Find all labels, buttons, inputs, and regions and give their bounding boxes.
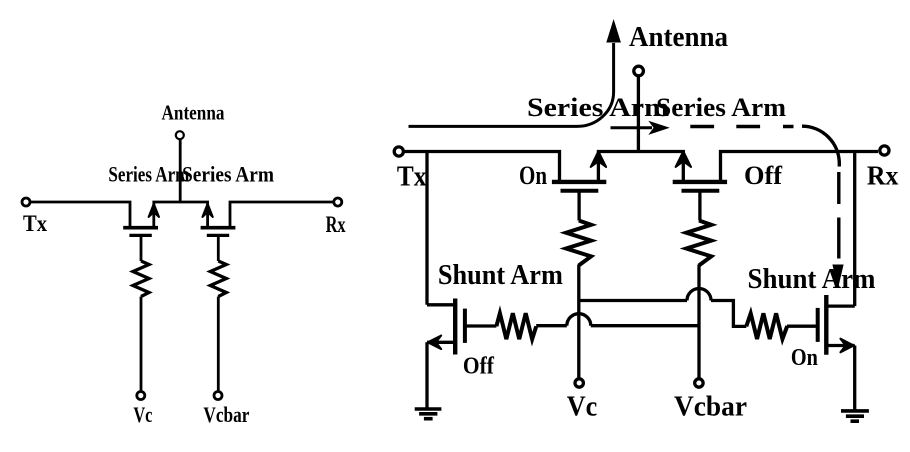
transistor M6 gate bar bbox=[816, 308, 820, 342]
wire crossover to Vcbar node bbox=[591, 324, 699, 327]
transistor M5 bottom lead bbox=[427, 341, 455, 344]
svg-text:Tx: Tx bbox=[397, 162, 427, 193]
svg-text:Series Arm: Series Arm bbox=[656, 93, 786, 122]
svg-text:Antenna: Antenna bbox=[629, 22, 728, 53]
wire M4 drain to Rx bbox=[721, 152, 879, 182]
svg-text:Vcbar: Vcbar bbox=[674, 392, 747, 423]
wire antenna to rail (left) bbox=[179, 140, 182, 202]
wire R4 to Vcbar terminal bbox=[697, 265, 700, 379]
ground (left) bar 2 bbox=[419, 412, 437, 416]
svg-text:Series Arm: Series Arm bbox=[182, 161, 274, 186]
ground (left) bar 3 bbox=[424, 417, 433, 421]
transistor M3 channel bar bbox=[552, 180, 606, 184]
wire R6 to M6 gate bbox=[787, 325, 816, 328]
ground (right) bar 3 bbox=[851, 419, 860, 423]
svg-text:On: On bbox=[791, 345, 818, 371]
transistor M1 arrow (drain lead) bbox=[149, 204, 159, 217]
wire M3 drain to antenna node to M4 source bbox=[598, 152, 683, 182]
transistor M5 (left shunt) top lead bbox=[427, 303, 455, 306]
antenna terminal (right) bbox=[634, 66, 644, 76]
wire M3 gate to resistor R3 bbox=[577, 192, 580, 220]
svg-text:Antenna: Antenna bbox=[162, 101, 225, 125]
transistor M5 gate bar bbox=[463, 309, 467, 343]
transistor M4 channel bar bbox=[673, 180, 727, 184]
transistor M3 gate bar bbox=[561, 189, 599, 193]
svg-text:Rx: Rx bbox=[326, 212, 346, 237]
svg-text:On: On bbox=[519, 161, 547, 190]
svg-text:Off: Off bbox=[744, 161, 782, 190]
transistor M5 channel bar bbox=[453, 299, 457, 355]
svg-text:Off: Off bbox=[463, 354, 495, 380]
ground (right) bar 2 bbox=[846, 414, 864, 418]
transistor M1 channel bar bbox=[123, 226, 158, 230]
resistor R5 (horizontal) bbox=[496, 313, 536, 339]
wire M6 source to ground bbox=[853, 346, 856, 410]
wire Tx to M3 source bbox=[404, 152, 559, 182]
svg-text:Shunt Arm: Shunt Arm bbox=[438, 260, 563, 291]
resistor R6 (horizontal) bbox=[746, 313, 787, 339]
svg-text:Vc: Vc bbox=[133, 402, 152, 427]
transistor M6 arrow bbox=[840, 339, 853, 353]
transistor M2 arrow (source lead) bbox=[202, 204, 212, 217]
signal flow horizontal arrow shaft (at antenna node) bbox=[611, 126, 653, 129]
wire Tx to M1 source bbox=[31, 202, 131, 226]
wire R1 to Vc terminal bbox=[140, 297, 143, 392]
wire M5 source to ground bbox=[425, 342, 428, 407]
antenna terminal (left) bbox=[176, 131, 184, 139]
wire M4 gate to resistor R4 bbox=[698, 192, 701, 220]
transistor M4 arrow (source lead) bbox=[676, 151, 691, 167]
isolation dashed path arrowhead bbox=[832, 265, 843, 289]
svg-text:Series Arm: Series Arm bbox=[108, 161, 189, 186]
svg-text:Vc: Vc bbox=[567, 392, 598, 423]
Rx terminal (left) bbox=[334, 198, 342, 206]
transistor M6 bottom lead bbox=[827, 344, 855, 347]
transistor M6 top lead bbox=[827, 304, 855, 307]
wire Tx branch down to shunt M5 bbox=[425, 152, 428, 305]
wire hop over Vc line bbox=[567, 314, 591, 326]
wire antenna to rail (right) bbox=[637, 77, 640, 152]
transistor M6 channel bar bbox=[824, 295, 828, 355]
resistor R2 bbox=[210, 261, 226, 297]
wire R3 to Vc terminal bbox=[577, 265, 580, 379]
wire M2 drain to Rx bbox=[230, 202, 333, 226]
wire upper bus to R6 bbox=[711, 301, 746, 327]
isolation dashed path: horizontal dashes bbox=[690, 125, 793, 128]
wire hop over Vcbar line bbox=[687, 289, 711, 301]
svg-text:Vcbar: Vcbar bbox=[203, 402, 249, 427]
transistor M4 gate bar bbox=[682, 189, 720, 193]
Tx terminal (right) bbox=[394, 147, 403, 156]
wire R2 to Vcbar terminal bbox=[217, 297, 220, 392]
wire M1 drain to antenna node to M2 source bbox=[154, 202, 208, 226]
Vc terminal (left) bbox=[137, 392, 145, 400]
isolation dashed path: vertical dashes bbox=[837, 172, 840, 259]
wire M2 gate to resistor R2 bbox=[217, 237, 220, 262]
transistor M3 arrow (drain lead) bbox=[591, 151, 606, 167]
Vcbar terminal (left) bbox=[214, 392, 222, 400]
transistor M1 gate bar bbox=[129, 234, 151, 237]
signal flow arrow (thick curve Tx to antenna) bbox=[409, 43, 614, 126]
svg-text:Tx: Tx bbox=[23, 211, 47, 236]
signal flow horizontal arrowhead bbox=[648, 121, 670, 135]
signal flow arrowhead bbox=[606, 19, 621, 43]
wire Rx branch down to shunt M6 bbox=[853, 152, 856, 307]
svg-text:Rx: Rx bbox=[867, 161, 899, 191]
Vc terminal (right) bbox=[575, 379, 583, 387]
wire M1 gate to resistor R1 bbox=[140, 237, 143, 262]
resistor R3 bbox=[566, 221, 591, 266]
isolation dashed path: curve down toward Rx branch bbox=[802, 126, 839, 166]
svg-text:Shunt Arm: Shunt Arm bbox=[748, 264, 876, 295]
wire R5 to crossover bbox=[536, 324, 567, 327]
resistor R4 bbox=[686, 221, 711, 266]
wire M5 gate to resistor R5 bbox=[467, 324, 497, 327]
svg-text:Series Arm: Series Arm bbox=[527, 93, 669, 122]
transistor M2 gate bar bbox=[207, 234, 229, 237]
Tx terminal (left) bbox=[22, 198, 30, 206]
Rx terminal (right) bbox=[880, 146, 889, 155]
Vcbar terminal (right) bbox=[695, 379, 703, 387]
wire Vc node to upper bus bbox=[579, 299, 687, 302]
transistor M5 arrow bbox=[428, 336, 441, 350]
resistor R1 bbox=[133, 261, 149, 297]
ground (left) bar 1 bbox=[415, 407, 442, 411]
ground (right) bar 1 bbox=[841, 409, 869, 413]
transistor M2 channel bar bbox=[201, 226, 236, 230]
